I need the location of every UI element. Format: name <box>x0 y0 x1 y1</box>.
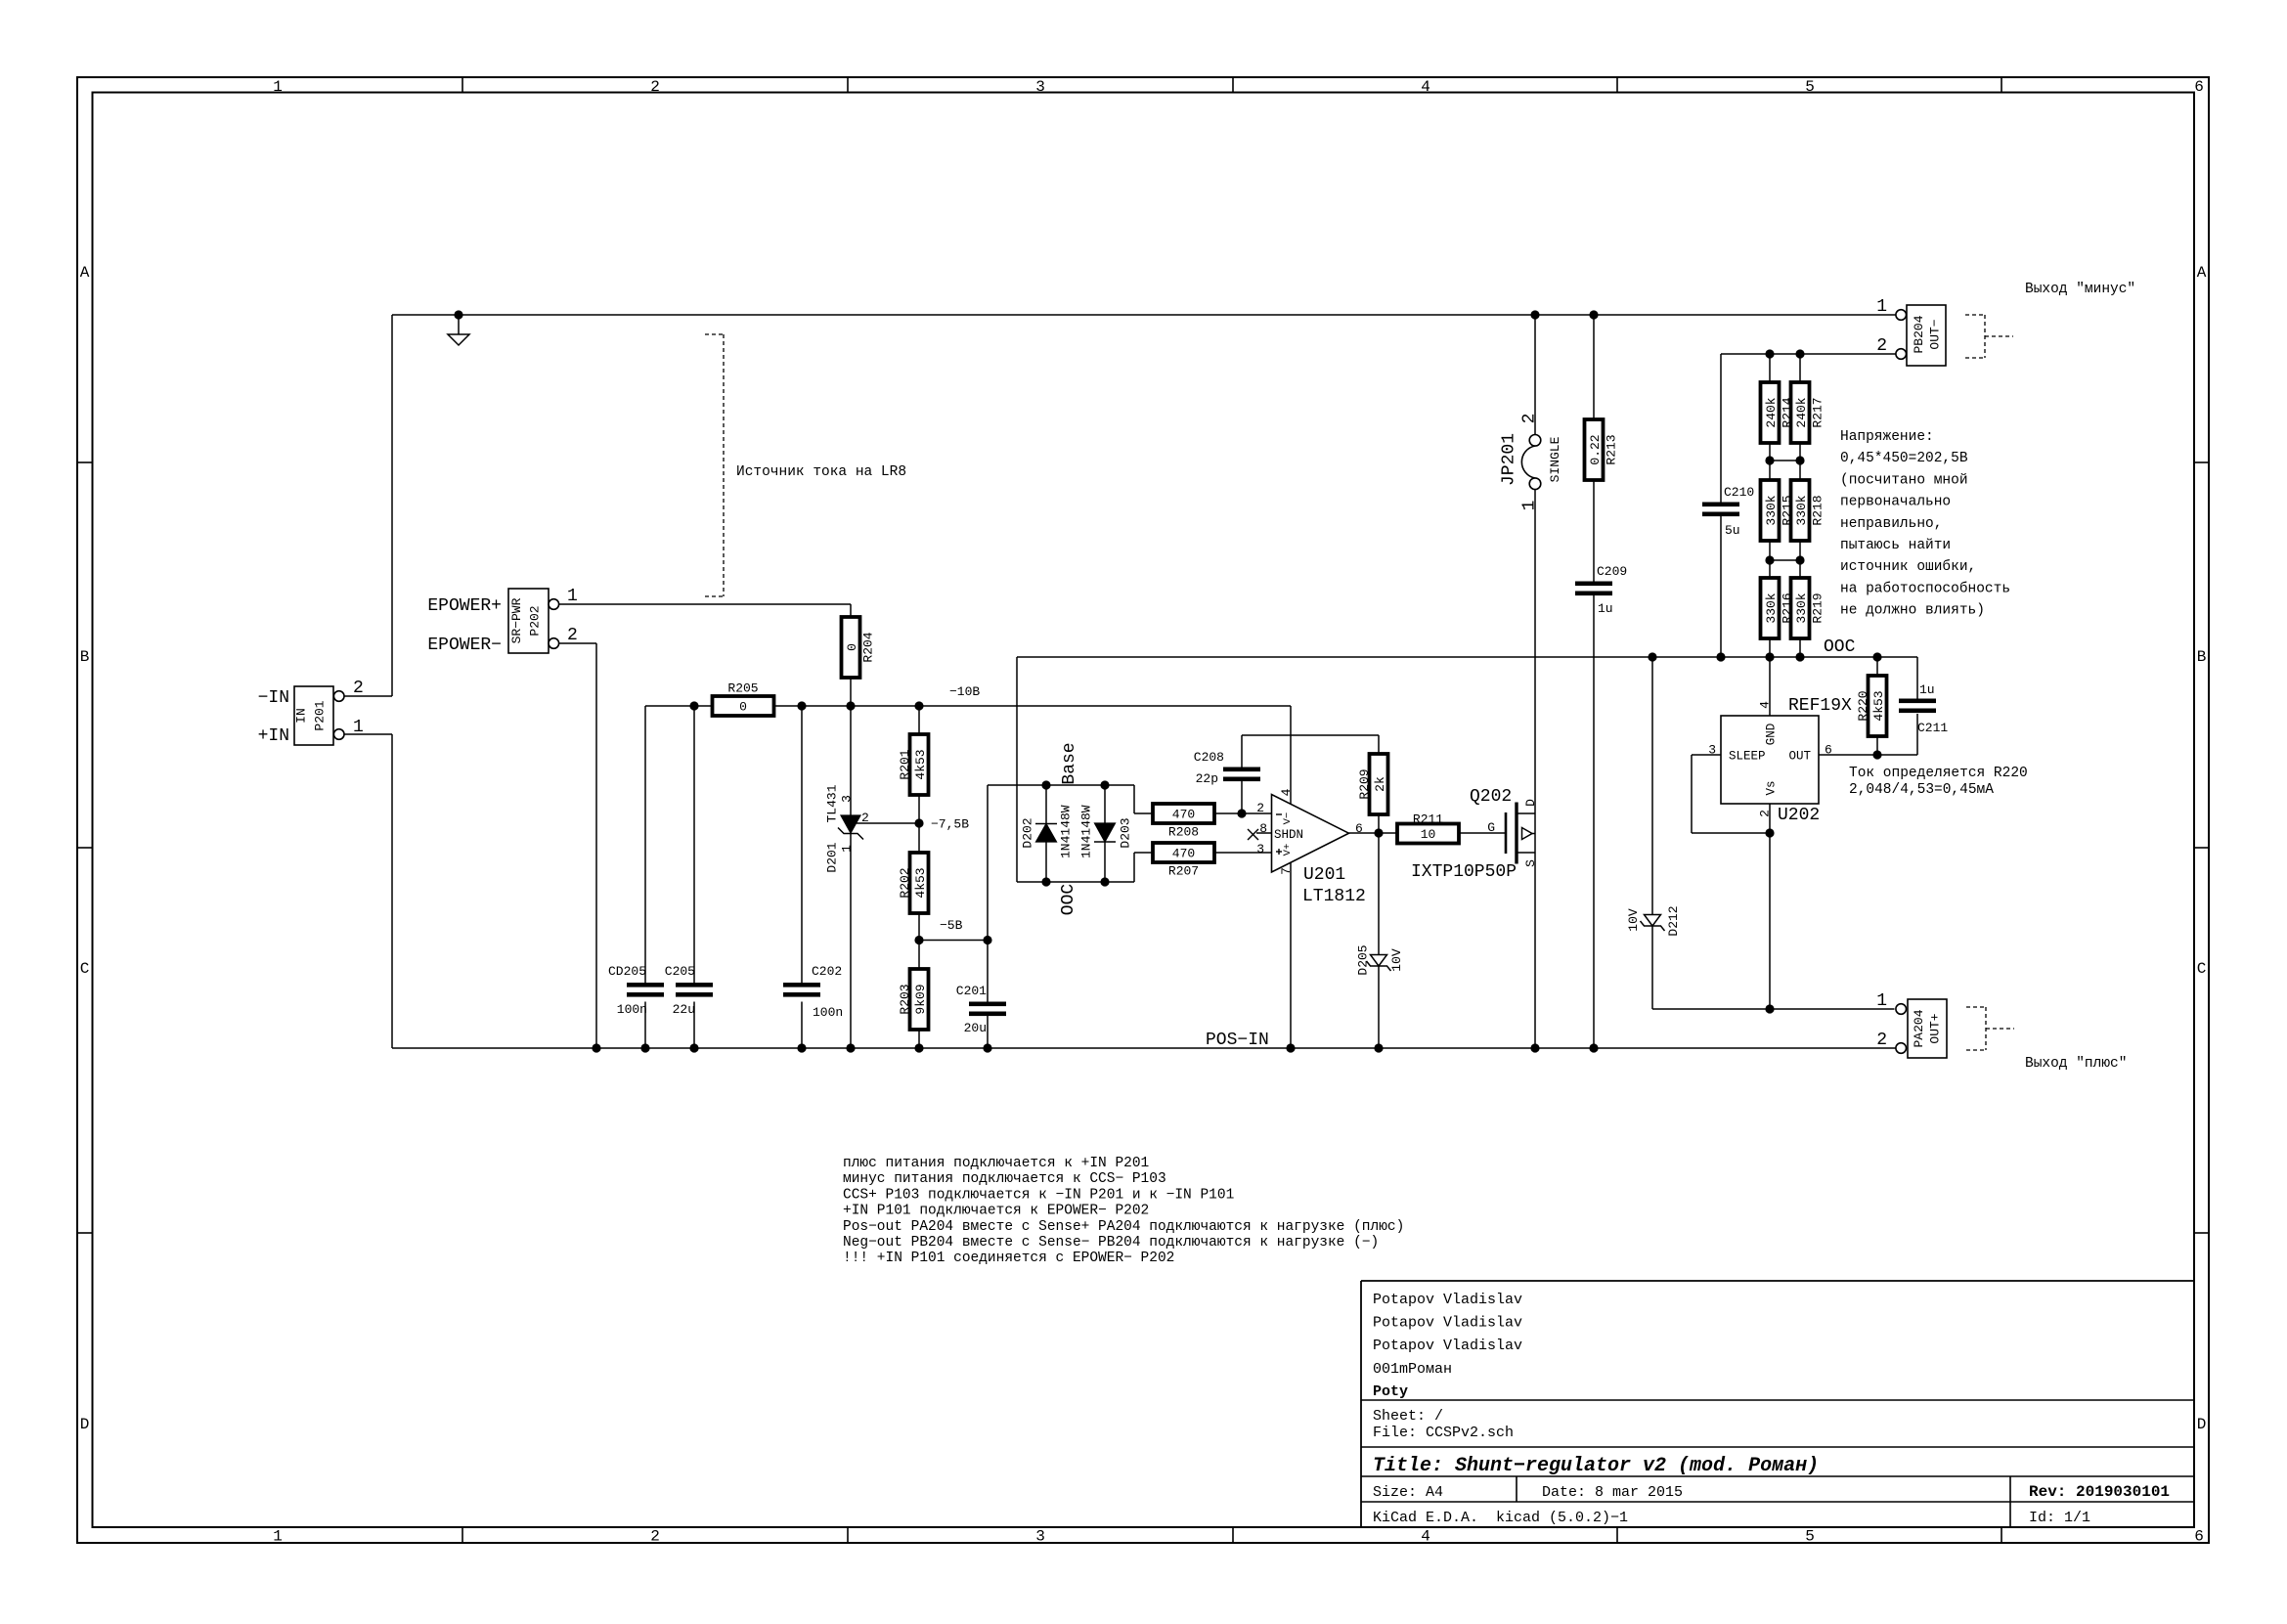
svg-text:OOC: OOC <box>1059 884 1078 916</box>
svg-text:2: 2 <box>1520 414 1540 424</box>
svg-text:1: 1 <box>567 587 578 606</box>
svg-text:8: 8 <box>1259 821 1267 836</box>
svg-text:CCS+ P103 подключается к −IN P: CCS+ P103 подключается к −IN P201 и к −I… <box>843 1187 1234 1203</box>
svg-text:IN: IN <box>294 708 309 724</box>
svg-text:Base: Base <box>1060 742 1079 784</box>
svg-text:V−: V− <box>1282 812 1294 825</box>
svg-text:R208: R208 <box>1168 825 1199 840</box>
svg-text:Vs: Vs <box>1765 780 1779 795</box>
svg-text:−7,5В: −7,5В <box>931 817 969 832</box>
svg-text:+IN: +IN <box>258 726 289 746</box>
svg-text:0,45*450=202,5В: 0,45*450=202,5В <box>1840 451 1968 466</box>
svg-text:−IN: −IN <box>258 688 289 708</box>
svg-text:100n: 100n <box>813 1005 843 1020</box>
svg-text:Title: Shunt−regulator v2 (mod: Title: Shunt−regulator v2 (mod. Роман) <box>1373 1455 1819 1477</box>
svg-text:B: B <box>2197 648 2207 666</box>
svg-text:IXTP10P50P: IXTP10P50P <box>1411 862 1517 882</box>
svg-text:не должно влиять): не должно влиять) <box>1840 603 1985 619</box>
svg-text:3: 3 <box>1035 1528 1045 1546</box>
svg-text:1: 1 <box>273 1528 283 1546</box>
svg-text:C202: C202 <box>812 964 842 979</box>
svg-text:470: 470 <box>1172 808 1195 822</box>
svg-text:2: 2 <box>1876 1031 1887 1050</box>
svg-text:10V: 10V <box>1389 948 1404 972</box>
svg-text:6: 6 <box>1355 821 1363 836</box>
svg-text:первоначально: первоначально <box>1840 495 1951 510</box>
svg-text:9k09: 9k09 <box>913 984 928 1014</box>
svg-text:6: 6 <box>1825 743 1832 758</box>
svg-text:3: 3 <box>840 795 855 803</box>
svg-text:PA204: PA204 <box>1912 1009 1926 1047</box>
svg-text:2: 2 <box>1758 810 1773 817</box>
svg-text:LT1812: LT1812 <box>1302 887 1366 906</box>
svg-text:240k: 240k <box>1794 397 1809 427</box>
svg-text:+IN P101 подключается к EPOWER: +IN P101 подключается к EPOWER− P202 <box>843 1204 1149 1219</box>
svg-text:OUT−: OUT− <box>1928 319 1943 349</box>
svg-text:R220: R220 <box>1856 690 1870 721</box>
svg-text:G: G <box>1487 820 1495 835</box>
svg-text:D: D <box>80 1416 90 1433</box>
svg-text:22p: 22p <box>1196 771 1218 786</box>
svg-text:R207: R207 <box>1168 864 1199 879</box>
svg-text:R211: R211 <box>1413 812 1443 827</box>
svg-text:Sheet: /: Sheet: / <box>1373 1408 1443 1425</box>
svg-text:C: C <box>80 960 90 978</box>
svg-text:4: 4 <box>1421 1528 1430 1546</box>
svg-text:5: 5 <box>1805 1528 1815 1546</box>
svg-text:Выход "минус": Выход "минус" <box>2025 282 2135 297</box>
svg-text:C205: C205 <box>665 964 695 979</box>
svg-text:2: 2 <box>353 679 364 698</box>
svg-text:R217: R217 <box>1811 397 1825 427</box>
svg-text:Size: A4: Size: A4 <box>1373 1484 1443 1501</box>
svg-text:20u: 20u <box>964 1021 987 1035</box>
svg-text:470: 470 <box>1172 847 1195 861</box>
svg-text:1: 1 <box>1876 991 1887 1011</box>
svg-text:330k: 330k <box>1794 593 1809 623</box>
svg-text:U201: U201 <box>1303 865 1345 885</box>
svg-text:SLEEP: SLEEP <box>1729 750 1766 764</box>
svg-text:1u: 1u <box>1919 682 1935 697</box>
svg-text:S: S <box>1523 859 1538 867</box>
svg-text:Напряжение:: Напряжение: <box>1840 429 1934 445</box>
svg-text:CD205: CD205 <box>608 964 646 979</box>
svg-text:C210: C210 <box>1724 485 1754 500</box>
svg-text:2: 2 <box>861 811 869 825</box>
svg-text:1N4148W: 1N4148W <box>1079 805 1094 858</box>
svg-text:4: 4 <box>1421 78 1430 96</box>
svg-text:C209: C209 <box>1597 564 1627 579</box>
svg-text:Q202: Q202 <box>1470 787 1512 807</box>
svg-text:Rev: 2019030101: Rev: 2019030101 <box>2029 1483 2170 1501</box>
svg-text:0: 0 <box>739 700 747 715</box>
svg-text:1: 1 <box>353 718 364 737</box>
svg-text:POS−IN: POS−IN <box>1206 1031 1269 1050</box>
svg-text:REF19X: REF19X <box>1788 696 1852 716</box>
svg-text:KiCad E.D.A. kicad (5.0.2)−1: KiCad E.D.A. kicad (5.0.2)−1 <box>1373 1510 1628 1526</box>
svg-text:2: 2 <box>1256 801 1264 815</box>
svg-text:A: A <box>2197 264 2207 282</box>
svg-text:240k: 240k <box>1764 397 1779 427</box>
svg-text:Potapov Vladislav: Potapov Vladislav <box>1373 1315 1522 1332</box>
svg-text:плюс питания подключается к +I: плюс питания подключается к +IN P201 <box>843 1156 1149 1171</box>
svg-text:5u: 5u <box>1725 523 1740 538</box>
svg-text:C: C <box>2197 960 2207 978</box>
svg-text:−5В: −5В <box>940 918 963 933</box>
svg-text:минус питания подключается к C: минус питания подключается к CCS− P103 <box>843 1171 1166 1187</box>
svg-text:2k: 2k <box>1373 776 1387 792</box>
svg-text:R219: R219 <box>1811 593 1825 623</box>
svg-text:неправильно,: неправильно, <box>1840 516 1942 532</box>
svg-text:7: 7 <box>1279 867 1294 875</box>
svg-text:EPOWER+: EPOWER+ <box>427 596 502 616</box>
svg-text:D202: D202 <box>1021 817 1035 848</box>
svg-text:GND: GND <box>1765 724 1779 746</box>
svg-text:3: 3 <box>1035 78 1045 96</box>
svg-text:Neg−out PB204 вместе с Sense−: Neg−out PB204 вместе с Sense− PB204 подк… <box>843 1235 1379 1251</box>
svg-text:TL431: TL431 <box>825 784 840 822</box>
svg-text:1: 1 <box>1876 297 1887 317</box>
svg-text:R209: R209 <box>1357 768 1372 799</box>
svg-text:2: 2 <box>650 1528 660 1546</box>
svg-text:D212: D212 <box>1666 905 1681 936</box>
svg-text:0: 0 <box>845 643 859 651</box>
svg-text:2: 2 <box>567 626 578 645</box>
svg-text:Potapov Vladislav: Potapov Vladislav <box>1373 1292 1522 1308</box>
svg-text:R218: R218 <box>1811 495 1825 525</box>
svg-text:330k: 330k <box>1764 495 1779 525</box>
svg-text:10V: 10V <box>1626 908 1641 932</box>
svg-text:EPOWER−: EPOWER− <box>427 636 502 655</box>
svg-text:1u: 1u <box>1598 601 1613 616</box>
svg-text:B: B <box>80 648 90 666</box>
svg-text:5: 5 <box>1805 78 1815 96</box>
svg-text:Источник тока на LR8: Источник тока на LR8 <box>736 464 906 480</box>
svg-text:C201: C201 <box>956 984 987 998</box>
svg-text:1: 1 <box>840 845 855 853</box>
svg-text:−10В: −10В <box>949 684 980 699</box>
svg-text:Poty: Poty <box>1373 1383 1408 1400</box>
svg-text:3: 3 <box>1256 842 1264 856</box>
svg-text:D: D <box>2197 1416 2207 1433</box>
svg-text:источник ошибки,: источник ошибки, <box>1840 558 1976 575</box>
svg-text:10: 10 <box>1421 827 1436 842</box>
svg-text:D205: D205 <box>1356 944 1371 975</box>
svg-text:Potapov Vladislav: Potapov Vladislav <box>1373 1338 1522 1354</box>
svg-text:D203: D203 <box>1119 817 1133 848</box>
svg-text:D: D <box>1523 799 1538 807</box>
svg-text:OUT+: OUT+ <box>1928 1013 1943 1043</box>
svg-text:100n: 100n <box>617 1002 647 1017</box>
svg-text:R201: R201 <box>898 749 912 779</box>
svg-text:R204: R204 <box>861 632 876 662</box>
svg-text:1N4148W: 1N4148W <box>1059 805 1074 858</box>
svg-text:4: 4 <box>1758 701 1773 709</box>
svg-text:PB204: PB204 <box>1912 315 1926 353</box>
svg-text:2,048/4,53=0,45мА: 2,048/4,53=0,45мА <box>1849 782 1994 798</box>
svg-text:U202: U202 <box>1778 806 1820 825</box>
svg-text:0.22: 0.22 <box>1588 434 1603 464</box>
svg-text:4k53: 4k53 <box>913 867 928 898</box>
svg-text:001mРоман: 001mРоман <box>1373 1361 1452 1378</box>
svg-text:SINGLE: SINGLE <box>1548 436 1562 482</box>
svg-text:R203: R203 <box>898 984 912 1014</box>
svg-text:OOC: OOC <box>1824 637 1856 657</box>
svg-text:на работоспособность: на работоспособность <box>1840 580 2010 596</box>
svg-text:2: 2 <box>650 78 660 96</box>
svg-text:22u: 22u <box>673 1002 695 1017</box>
svg-text:4k53: 4k53 <box>1871 690 1886 721</box>
svg-text:OUT: OUT <box>1788 750 1811 764</box>
svg-text:Id: 1/1: Id: 1/1 <box>2029 1510 2090 1526</box>
svg-text:пытаюсь найти: пытаюсь найти <box>1840 537 1951 553</box>
svg-text:(посчитано мной: (посчитано мной <box>1840 471 1968 488</box>
svg-text:330k: 330k <box>1794 495 1809 525</box>
svg-text:D201: D201 <box>825 842 840 872</box>
svg-text:Pos−out PA204 вместе с Sense+: Pos−out PA204 вместе с Sense+ PA204 подк… <box>843 1219 1404 1235</box>
svg-text:File: CCSPv2.sch: File: CCSPv2.sch <box>1373 1425 1514 1441</box>
svg-text:C211: C211 <box>1917 721 1948 735</box>
svg-text:JP201: JP201 <box>1500 433 1519 486</box>
svg-text:1: 1 <box>1520 501 1540 511</box>
svg-text:Выход "плюс": Выход "плюс" <box>2025 1056 2127 1072</box>
svg-text:!!! +IN P101 соединяется с EPO: !!! +IN P101 соединяется с EPOWER− P202 <box>843 1251 1174 1266</box>
svg-text:330k: 330k <box>1764 593 1779 623</box>
svg-text:Date: 8 mar 2015: Date: 8 mar 2015 <box>1542 1484 1683 1501</box>
svg-text:V+: V+ <box>1282 844 1294 856</box>
svg-text:P202: P202 <box>528 605 543 636</box>
svg-text:6: 6 <box>2194 78 2204 96</box>
svg-text:3: 3 <box>1708 743 1716 758</box>
svg-text:R205: R205 <box>727 681 758 696</box>
svg-text:Ток определяется R220: Ток определяется R220 <box>1849 766 2028 781</box>
svg-text:R213: R213 <box>1605 434 1619 464</box>
svg-text:SR−PWR: SR−PWR <box>509 597 524 643</box>
svg-text:4: 4 <box>1279 788 1294 796</box>
svg-text:SHDN: SHDN <box>1274 828 1303 842</box>
svg-text:4k53: 4k53 <box>913 749 928 779</box>
svg-text:2: 2 <box>1876 336 1887 356</box>
svg-text:P201: P201 <box>313 700 328 730</box>
svg-text:C208: C208 <box>1194 750 1224 765</box>
svg-text:6: 6 <box>2194 1528 2204 1546</box>
svg-text:A: A <box>80 264 90 282</box>
svg-text:1: 1 <box>273 78 283 96</box>
svg-text:R202: R202 <box>898 867 912 898</box>
